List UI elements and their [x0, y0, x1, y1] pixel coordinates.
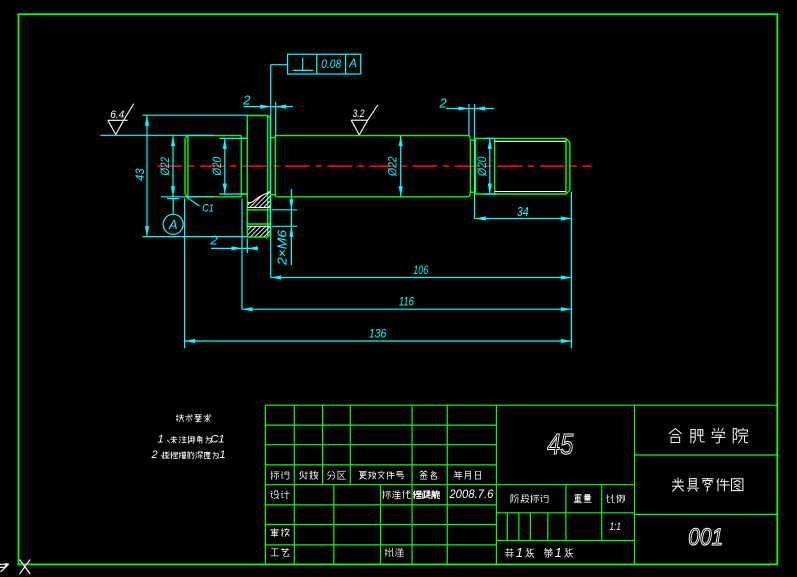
svg-text:136: 136: [369, 326, 387, 340]
dim 136: [184, 199, 186, 349]
svg-text:2: 2: [242, 93, 251, 108]
dim 2 flange relief groove: [275, 102, 277, 136]
title block outer lines: [265, 404, 777, 406]
svg-text:2008.7.6: 2008.7.6: [448, 489, 494, 501]
main shaft Ø22 outline: [275, 135, 469, 137]
row: process: [271, 549, 279, 556]
svg-text:Ø20: Ø20: [210, 157, 224, 177]
technical requirements heading: [176, 414, 183, 421]
svg-text:1: 1: [157, 434, 163, 446]
relief groove right of flange: [270, 137, 275, 139]
svg-text:Ø20: Ø20: [475, 156, 489, 177]
perpendicularity frame leader: [271, 64, 288, 66]
svg-text:A: A: [348, 58, 357, 70]
svg-text:3.2: 3.2: [353, 108, 365, 120]
dim Ø22 left journal: [172, 136, 174, 197]
relief groove Ø20 between journal and flange: [241, 137, 247, 139]
svg-text:Ø22: Ø22: [158, 157, 172, 177]
svg-text:116: 116: [399, 295, 414, 309]
drawing title: [672, 478, 683, 491]
M6 tapped hole section lines: [247, 209, 270, 211]
revision block upper columns: [293, 405, 295, 485]
svg-text:0.08: 0.08: [321, 57, 341, 71]
threaded end M20 outline: [476, 137, 567, 139]
stage mark row: [511, 495, 519, 503]
svg-text:1:1: 1:1: [609, 521, 621, 533]
roughness symbol 6.4: [108, 119, 128, 121]
chamfer C1 leader: [187, 197, 200, 206]
revision block rows: [265, 424, 496, 426]
svg-text:43: 43: [133, 168, 147, 181]
dim 43 flange height: [143, 114, 249, 116]
svg-text:2: 2: [209, 232, 218, 247]
svg-text:6.4: 6.4: [110, 109, 124, 121]
dim 2xM6 callout: [272, 209, 297, 211]
svg-text:Ø22: Ø22: [385, 156, 399, 177]
sheet count: [505, 549, 513, 558]
section break line (wavy): [247, 191, 270, 202]
row: check: [271, 528, 278, 536]
roughness symbol 3.2: [351, 119, 368, 121]
crosshair X mark: [20, 560, 31, 575]
svg-text:2: 2: [438, 95, 447, 110]
revision block lower columns: [293, 485, 295, 565]
thread relief groove: [470, 139, 475, 141]
svg-text:2×M6: 2×M6: [275, 229, 290, 266]
row: design: [271, 491, 279, 499]
middle block lines: [496, 484, 634, 486]
datum A symbol: [167, 198, 180, 200]
dim 34 thread length: [570, 192, 572, 348]
left journal Ø22 outline with C1 chamfers: [184, 138, 186, 194]
thread minor diameter lines: [495, 140, 566, 142]
svg-text:34: 34: [517, 205, 529, 219]
svg-text:C1: C1: [210, 434, 224, 446]
svg-text:45: 45: [547, 429, 574, 461]
svg-text:1: 1: [555, 546, 562, 560]
dim Ø20 left groove: [219, 137, 247, 139]
svg-text:2: 2: [150, 449, 157, 461]
signature: [413, 491, 421, 499]
svg-text:A: A: [168, 217, 178, 232]
svg-text:C1: C1: [202, 203, 214, 215]
dim Ø22 main shaft: [400, 136, 402, 197]
shaft centerline: [157, 165, 591, 167]
svg-text:106: 106: [413, 263, 428, 277]
feature control frame 0.08 A: [288, 54, 361, 74]
header row labels: [271, 471, 279, 479]
school name: [669, 429, 682, 443]
dim 106: [271, 277, 572, 279]
dim 2 left groove width: [241, 199, 243, 310]
svg-text:001: 001: [688, 524, 723, 551]
dim Ø20 thread: [484, 137, 498, 139]
ucs arrow at left edge: [0, 563, 7, 565]
svg-text:1: 1: [516, 546, 523, 560]
flange Ø43 outline: [246, 116, 248, 238]
dim 2 thread relief groove: [468, 104, 470, 135]
right block lines: [635, 454, 778, 456]
dim 116: [242, 308, 571, 310]
svg-text:1: 1: [219, 449, 225, 461]
roughness 6.4 leader line: [100, 134, 213, 136]
journal bottom extension line: [161, 196, 214, 198]
